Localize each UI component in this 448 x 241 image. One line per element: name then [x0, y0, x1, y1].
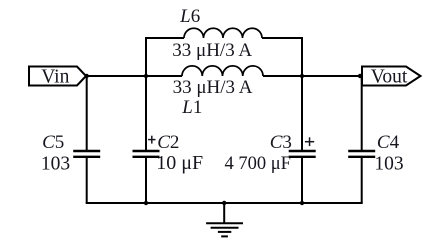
- svg-text:C5: C5: [42, 132, 64, 153]
- svg-text:33 μH/3 A: 33 μH/3 A: [172, 40, 252, 61]
- wire: top branch left riser: [145, 37, 147, 76]
- svg-text:10 μF: 10 μF: [156, 152, 203, 174]
- wire: C4 vertical bottom: [361, 157, 363, 203]
- wire: top branch right horizontal: [262, 37, 303, 39]
- wire: top branch left horizontal: [145, 37, 184, 39]
- svg-text:103: 103: [41, 153, 70, 174]
- node: ground junction: [222, 201, 226, 205]
- wire: C3 vertical bottom: [301, 157, 303, 203]
- capacitor C2: [133, 151, 160, 157]
- wire: C2 vertical bottom: [145, 157, 147, 203]
- wire: C4 vertical top: [361, 76, 363, 151]
- node: Vin junction: [85, 74, 89, 78]
- polarity + of C3: [305, 137, 314, 146]
- port Vout: [362, 67, 421, 86]
- wire: bottom rail: [86, 202, 363, 204]
- wire: main horizontal Vin to L1: [86, 75, 182, 77]
- wire: C2 vertical top: [145, 76, 147, 151]
- capacitor C5: [73, 151, 100, 157]
- polarity + of C2: [148, 136, 155, 144]
- wire: C3 vertical top: [301, 76, 303, 151]
- svg-text:C2: C2: [157, 132, 179, 153]
- ground: [206, 203, 243, 236]
- svg-text:Vin: Vin: [41, 67, 69, 88]
- port Vin: [29, 67, 86, 86]
- node: C2 top junction: [144, 74, 148, 78]
- svg-text:33 μH/3 A: 33 μH/3 A: [173, 77, 253, 98]
- svg-text:C3: C3: [270, 132, 292, 153]
- wire: top branch right riser: [301, 37, 303, 76]
- svg-text:L6: L6: [179, 6, 200, 27]
- node: C2 bottom junction: [144, 201, 148, 205]
- svg-text:4 700 μF: 4 700 μF: [224, 154, 290, 174]
- inductor L1: [182, 66, 263, 76]
- inductor L6: [184, 28, 262, 38]
- node: C3 top junction: [300, 74, 304, 78]
- node: C3 bottom junction: [300, 201, 304, 205]
- svg-text:L1: L1: [181, 97, 202, 118]
- node: Vout junction: [358, 74, 362, 78]
- wire: C5 vertical top: [86, 76, 88, 151]
- svg-text:103: 103: [374, 153, 403, 174]
- capacitor C3: [289, 151, 316, 157]
- capacitor C4: [348, 151, 375, 157]
- wire: C5 vertical bottom: [86, 157, 88, 203]
- svg-text:C4: C4: [377, 132, 400, 153]
- svg-text:Vout: Vout: [371, 67, 408, 88]
- wire: L1 right to output corner: [263, 75, 362, 77]
